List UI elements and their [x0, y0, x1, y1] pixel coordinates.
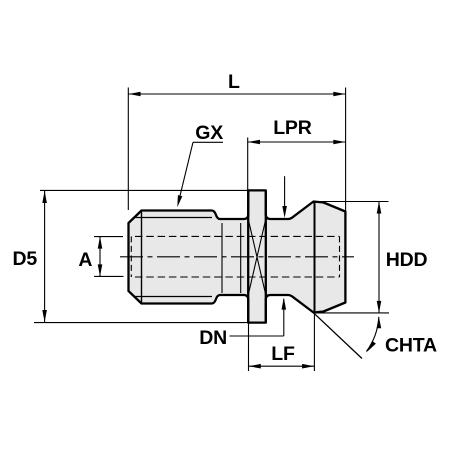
head corner edge vertical: [314, 202, 316, 313]
coolant bore hidden line top: [135, 235, 340, 237]
thread minor diameter line top: [135, 217, 213, 219]
dimension LF arrow left: [249, 364, 261, 369]
D5 extension line bottom: [34, 322, 248, 324]
DN arrow tail bottom: [283, 299, 285, 336]
dimension LF line: [249, 365, 315, 367]
dimension HDD line: [378, 202, 380, 313]
dimension HDD arrow top: [377, 202, 382, 214]
flange X mark line 1: [248, 219, 266, 295]
A extension line top: [94, 236, 123, 238]
svg-text:HDD: HDD: [386, 249, 428, 271]
dimension LPR arrow left: [248, 140, 260, 145]
svg-text:A: A: [78, 249, 92, 271]
bore hidden line left end: [130, 236, 132, 277]
svg-text:DN: DN: [199, 327, 227, 349]
CHTA arc arrow bottom: [367, 341, 376, 352]
flange X mark line 2: [248, 219, 266, 295]
dimension A line: [99, 237, 101, 277]
DN leader line: [230, 335, 284, 337]
flange left face line: [247, 190, 249, 322]
neck vertical line 2: [240, 223, 242, 293]
dimension D5 arrow top: [42, 191, 47, 203]
DN arrow tail top: [284, 176, 286, 208]
DN arrow top (points down at groove): [282, 206, 287, 218]
svg-text:D5: D5: [13, 248, 38, 270]
svg-text:L: L: [228, 71, 240, 93]
thread chamfer vertical line: [141, 211, 143, 304]
dimension LPR extension line left: [247, 138, 249, 191]
dimension L arrow left: [129, 92, 141, 97]
A extension line bottom: [94, 275, 124, 277]
svg-text:LF: LF: [271, 343, 295, 365]
coolant bore hidden line bottom: [135, 276, 340, 278]
svg-text:LPR: LPR: [273, 117, 312, 139]
flange right face line: [265, 190, 267, 322]
GX leader diagonal: [179, 142, 194, 202]
HDD extension line top: [315, 201, 389, 203]
DN arrow bottom (points up at groove): [282, 298, 287, 310]
D5 extension line top: [40, 189, 248, 191]
dimension LPR line: [248, 141, 346, 143]
LF extension line right: [313, 314, 315, 372]
dimension D5 arrow bottom: [42, 310, 47, 322]
svg-text:CHTA: CHTA: [385, 335, 437, 357]
bore hidden line right end: [339, 236, 341, 277]
dimension D5 line: [44, 191, 46, 322]
neck vertical line 1: [221, 223, 223, 293]
dimension L extension line right: [345, 88, 347, 212]
GX leader underline: [193, 141, 223, 143]
LF extension line left: [248, 324, 250, 372]
svg-text:GX: GX: [195, 122, 223, 144]
dimension HDD arrow bottom: [377, 301, 382, 313]
centerline: [120, 256, 354, 258]
HDD extension line bottom: [316, 312, 389, 314]
dimension LF arrow right: [302, 364, 314, 369]
CHTA arc arrow top: [377, 317, 382, 328]
dimension LPR arrow right: [333, 140, 345, 145]
dimension L line: [128, 93, 345, 95]
GX leader arrowhead: [177, 195, 182, 207]
dimension A arrow top: [98, 237, 103, 249]
dimension A arrow bottom: [98, 264, 103, 276]
retention knob body outline: [129, 190, 346, 322]
chamfer angle reference line: [314, 313, 363, 359]
dimension L extension line left: [127, 88, 129, 211]
thread minor diameter line bottom: [135, 296, 213, 298]
CHTA angle arc: [366, 317, 378, 352]
dimension L arrow right: [333, 92, 345, 97]
